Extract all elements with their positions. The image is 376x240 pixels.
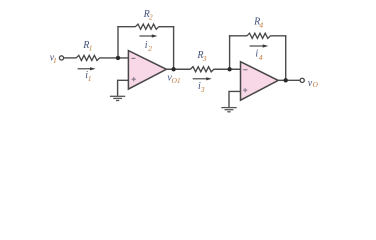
svg-text:1: 1: [89, 43, 93, 52]
wire: second feedback top rail left segment (to R4): [229, 35, 247, 37]
resistor R1: [76, 55, 99, 60]
wire: second feedback top rail right segment (R4 to drop): [270, 35, 286, 37]
op-amp U1: [128, 51, 166, 90]
resistor R2: [135, 24, 158, 29]
resistor R4: [247, 33, 270, 38]
current arrow i3: [193, 77, 212, 80]
current arrow i1: [78, 67, 96, 70]
node D junction dot (vO): [284, 78, 288, 82]
svg-text:O1: O1: [172, 76, 181, 85]
wire: U2 + input to ground stem: [229, 91, 240, 107]
ground (U1 + input): [110, 96, 125, 100]
node A junction dot: [116, 56, 120, 60]
svg-text:2: 2: [149, 12, 153, 21]
wire: feedback drop to node B on U1 output: [173, 26, 175, 70]
wire: node A riser to feedback top rail: [117, 26, 119, 58]
label R2 value: [143, 9, 153, 21]
wire: U2 output to vO terminal: [277, 79, 300, 81]
wire: input terminal to R1: [64, 57, 77, 59]
svg-text:I: I: [53, 56, 57, 65]
node B junction dot (vO1): [171, 67, 175, 71]
output terminal circle: [300, 78, 304, 82]
label i1 current: [85, 70, 91, 83]
wire: R1 to op-amp U1 inverting input (node A): [99, 57, 128, 59]
ground (U2 + input): [221, 108, 236, 112]
current arrow i4: [250, 44, 269, 47]
wire: node C riser to second feedback rail: [229, 35, 231, 69]
wire: feedback top rail left segment (to R2): [117, 26, 135, 28]
op-amp U2 minus sign: [243, 69, 247, 71]
svg-text:4: 4: [259, 53, 263, 62]
svg-text:O: O: [313, 80, 319, 89]
label i3 current: [198, 81, 205, 94]
svg-text:1: 1: [88, 74, 92, 83]
label R3 value: [196, 50, 206, 63]
wire: U1 + input to ground stem: [118, 80, 129, 96]
wire: U1 output to R3 (node vO1): [166, 68, 191, 70]
op-amp U2 plus sign: [243, 88, 247, 92]
current arrow i2: [139, 34, 157, 37]
label i4 current: [255, 49, 262, 62]
svg-text:2: 2: [148, 44, 152, 53]
label i2 current: [145, 40, 152, 53]
svg-text:3: 3: [202, 54, 207, 63]
op-amp U1 plus sign: [132, 77, 136, 81]
wire: second feedback drop to node D on U2 output: [285, 35, 287, 81]
op-amp U1 minus sign: [131, 57, 135, 59]
resistor R3: [190, 67, 213, 72]
op-amp U2: [241, 62, 279, 100]
label R4 value: [253, 16, 263, 29]
wire: R3 to op-amp U2 inverting input (node C): [214, 68, 241, 70]
node C junction dot: [227, 67, 231, 71]
label vI (input node): [50, 52, 57, 65]
label vO1 (node B): [167, 72, 180, 85]
input terminal circle: [59, 56, 63, 60]
label vO (output node): [308, 78, 319, 89]
label R1 value: [82, 40, 92, 52]
wire: feedback top rail right segment (R2 to drop): [159, 26, 175, 28]
svg-text:3: 3: [200, 85, 205, 94]
svg-text:4: 4: [259, 21, 263, 30]
